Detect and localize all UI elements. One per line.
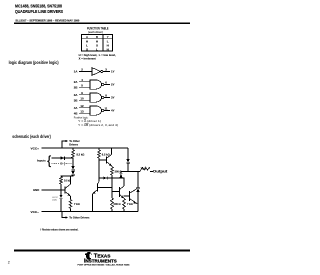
svg-text:(each driver): (each driver) — [88, 30, 103, 34]
svg-text:500 Ω: 500 Ω — [114, 202, 121, 206]
svg-text:1Y: 1Y — [111, 70, 115, 74]
svg-text:12: 12 — [80, 104, 84, 108]
svg-text:8.2 kΩ: 8.2 kΩ — [77, 152, 85, 156]
junction dots bottom rail — [60, 211, 62, 213]
input B wire (phantom) — [52, 163, 74, 165]
svg-text:13: 13 — [80, 110, 84, 114]
svg-text:Drivers: Drivers — [69, 142, 78, 146]
svg-text:6.2 kΩ: 6.2 kΩ — [102, 152, 110, 156]
node dot — [60, 189, 62, 191]
svg-text:10: 10 — [80, 97, 84, 101]
NAND gate 4Y — [79, 106, 110, 115]
table rows — [86, 40, 110, 52]
inverter gate 1Y (driver 1) — [79, 68, 110, 76]
transistor Q1 — [61, 176, 71, 200]
svg-text:SLLS107 – SEPTEMBER 1986 – REV: SLLS107 – SEPTEMBER 1986 – REVISED MAY 1… — [15, 19, 80, 23]
header rule — [14, 22, 190, 24]
TI logo mark — [85, 252, 92, 259]
input node wire down — [72, 158, 74, 166]
svg-text:(ref): (ref) — [53, 199, 57, 202]
resistor R3 10k — [60, 177, 63, 185]
function table box — [81, 35, 112, 51]
svg-text:GND: GND — [33, 188, 39, 192]
input B diode (phantom) — [61, 162, 65, 166]
svg-text:11: 11 — [104, 107, 107, 111]
zener diode branch — [60, 190, 62, 195]
series diode D3 — [71, 166, 75, 170]
svg-text:Y = AB (drivers 2, 3, and 4): Y = AB (drivers 2, 3, and 4) — [78, 123, 118, 127]
mid node wire (line B) — [99, 177, 124, 179]
footer rule — [14, 250, 190, 252]
VCC- pigtail — [62, 212, 66, 218]
svg-text:3B: 3B — [74, 98, 78, 102]
table header A B Y — [86, 35, 110, 39]
VCC- bottom rail — [42, 211, 139, 213]
svg-text:schematic (each driver): schematic (each driver) — [12, 134, 51, 139]
wire to node N2 — [61, 175, 73, 177]
series diode D4 — [71, 171, 75, 175]
NAND gate 2Y — [79, 80, 110, 89]
transistor Q3 (mirrored) — [93, 178, 113, 212]
svg-text:POST OFFICE BOX 655303 • DALLA: POST OFFICE BOX 655303 • DALLAS, TEXAS 7… — [78, 264, 131, 267]
svg-text:2B: 2B — [74, 85, 78, 89]
junction dots input node — [72, 157, 74, 159]
VCC+ pigtail wire — [62, 141, 66, 148]
resistor R6 500 ohm — [111, 198, 114, 209]
svg-text:QUADRUPLE LINE DRIVERS: QUADRUPLE LINE DRIVERS — [15, 9, 63, 14]
svg-text:H = high level, L = low level: H = high level, L = low level, — [79, 53, 116, 57]
svg-text:{: { — [47, 156, 51, 168]
output clamp diode column x=138 — [137, 172, 139, 189]
transistor Q2 — [99, 148, 112, 178]
svg-text:L: L — [96, 48, 98, 52]
input A diode — [61, 156, 65, 160]
VCC+ arrow — [66, 140, 69, 142]
resistor R7 7k — [123, 197, 125, 200]
svg-text:2: 2 — [8, 261, 10, 265]
vertical column x=112 to bottom resistor — [111, 178, 113, 198]
svg-text:Output: Output — [153, 170, 169, 174]
svg-text:X = irrelevant: X = irrelevant — [79, 56, 96, 60]
svg-text:3Y: 3Y — [111, 96, 115, 100]
svg-text:70 Ω: 70 Ω — [141, 167, 147, 171]
wire R3 to node — [60, 184, 62, 190]
resistor R1 8.2k — [72, 150, 75, 158]
svg-text:† Resistor values shown are no: † Resistor values shown are nominal. — [40, 227, 78, 231]
resistor R2 6.2k — [98, 150, 101, 158]
output line A with resistor R8 70 ohm — [121, 171, 140, 173]
svg-text:logic diagram (positive logic): logic diagram (positive logic) — [9, 60, 59, 65]
resistor R4 7k (Q1 emitter) — [69, 200, 72, 209]
svg-text:10 kΩ: 10 kΩ — [64, 178, 71, 182]
junction dots top rail — [61, 147, 63, 149]
NAND gate 3Y — [79, 93, 110, 102]
svg-text:7 kΩ: 7 kΩ — [127, 202, 133, 206]
input A wire — [52, 157, 74, 159]
svg-text:2Y: 2Y — [111, 83, 115, 87]
svg-text:VCC−: VCC− — [31, 210, 40, 214]
svg-text:4Y: 4Y — [111, 109, 115, 113]
svg-text:To Other Drivers: To Other Drivers — [69, 216, 90, 220]
svg-text:7 kΩ: 7 kΩ — [74, 202, 80, 206]
diode D5 on node wire — [104, 176, 107, 179]
svg-text:VCC+: VCC+ — [31, 146, 40, 150]
diode column x=121 (line A to line B) — [120, 172, 122, 174]
VCC rail end vertical with diode D7 — [127, 148, 129, 159]
resistor R5 300 ohm — [111, 167, 114, 175]
svg-text:Inputs: Inputs — [37, 159, 46, 163]
svg-text:6.2 V: 6.2 V — [53, 197, 59, 199]
transistor Q5 — [124, 189, 138, 204]
VCC+ top rail — [42, 147, 129, 149]
transistor Q4 — [112, 178, 124, 198]
